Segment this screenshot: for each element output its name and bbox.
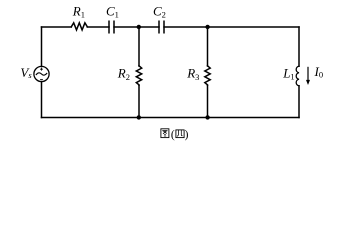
wire R2 branch upper (138, 27, 140, 66)
node bottom at R3 (205, 115, 209, 119)
wire bottom (42, 117, 300, 119)
wire right vertical below L1 (298, 86, 300, 118)
voltage source sine (36, 73, 46, 75)
voltage source plus sign (40, 68, 43, 80)
node top at R3 (205, 25, 209, 29)
capacitor C2 (159, 21, 164, 33)
wire right vertical above L1 (298, 27, 300, 66)
voltage source Vs circle (34, 66, 49, 81)
wire R3 branch upper (207, 27, 209, 66)
capacitor C1 (109, 21, 114, 33)
svg-text:R3: R3 (186, 66, 199, 82)
resistor R3 (205, 66, 210, 86)
svg-text:(: ( (171, 129, 175, 141)
svg-text:L1: L1 (282, 66, 294, 82)
wire top: R1 to C1 (87, 26, 109, 28)
wire R3 branch lower (207, 85, 209, 117)
svg-text:I0: I0 (314, 64, 324, 80)
voltage source minus sign (40, 78, 43, 80)
resistor R2 (136, 66, 141, 86)
svg-text:C2: C2 (153, 4, 166, 20)
current arrow I0 (306, 67, 310, 85)
caption glyph 四 (drawn) (176, 130, 184, 138)
wire top: C1 to C2 (through node) (114, 26, 159, 28)
svg-text:R1: R1 (72, 4, 85, 20)
wire R2 branch lower (138, 85, 140, 117)
wire top-left: source to R1 (42, 26, 72, 28)
node top between C1 C2 (137, 25, 141, 29)
wire left vertical above source (41, 27, 43, 67)
node bottom at R2 (137, 115, 141, 119)
caption glyph 圖 (drawn) (161, 129, 169, 138)
resistor R1 (71, 23, 87, 30)
svg-text:): ) (185, 129, 189, 141)
svg-text:R2: R2 (117, 66, 130, 82)
inductor L1 (296, 66, 299, 86)
wire left vertical below source (41, 82, 43, 118)
svg-text:Vs: Vs (20, 65, 32, 80)
svg-text:C1: C1 (106, 4, 119, 20)
wire top: C2 to top-right corner (164, 26, 299, 28)
